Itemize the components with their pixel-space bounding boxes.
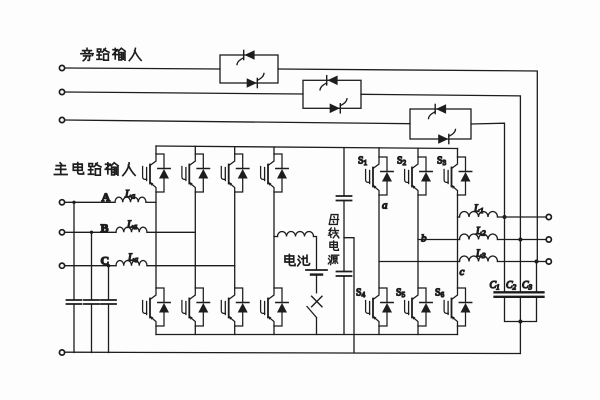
battery cell — [306, 270, 327, 293]
wire bypass line 2 right, drop to output line 2 — [361, 94, 520, 239]
battery disconnect switch — [307, 296, 322, 334]
label 旁路输入 (bypass input) — [81, 48, 141, 60]
label 母线电源 (DC bus supply), vertical — [328, 215, 339, 265]
svg-text:S3: S3 — [437, 156, 447, 168]
rectifier leg 3 wires — [234, 147, 236, 335]
terminal output 3 — [546, 259, 551, 264]
IGBT rectifier top leg 3 — [221, 154, 249, 192]
svg-text:S1: S1 — [358, 156, 368, 168]
svg-text:L2: L2 — [475, 226, 486, 238]
IGBT inverter S1 — [366, 157, 394, 195]
input filter capacitor phase B — [84, 232, 99, 352]
input filter capacitor phase C — [101, 266, 116, 353]
output capacitor leads — [505, 217, 537, 292]
inverter leg c wires — [457, 149, 459, 335]
terminal output 2 — [546, 237, 551, 242]
battery branch inductor wire from leg 4 — [274, 236, 278, 238]
output capacitor bottom bus — [505, 297, 537, 354]
svg-text:C2: C2 — [506, 280, 517, 292]
label 主电路输入 (main circuit input) — [54, 163, 135, 176]
IGBT inverter S4 — [366, 288, 394, 326]
terminal phase A — [59, 200, 64, 205]
inverter leg a wires — [378, 148, 380, 335]
wire phase C with inductor — [65, 265, 116, 267]
inductor La phase A — [115, 197, 146, 202]
terminal phase B — [59, 230, 64, 235]
static switch box 1 (anti-parallel thyristor pair) — [220, 50, 278, 88]
wire bypass line 1 left — [65, 68, 220, 69]
junction dot output 1 / bypass drop — [503, 215, 507, 219]
wire bypass line 3 right, drop to output line 1 — [471, 123, 505, 217]
DC bus capacitor upper — [337, 148, 352, 201]
svg-text:S5: S5 — [396, 288, 406, 300]
terminal output 1 — [546, 214, 551, 219]
inductor La phase B — [116, 227, 147, 232]
wire neutral bottom — [65, 352, 521, 353]
wire bypass line 1 right, drop to output line 3 — [278, 69, 537, 262]
wire phase A with inductor — [65, 201, 115, 203]
input filter capacitor phase A — [67, 202, 82, 352]
wire output phase a to L3 — [379, 261, 460, 263]
terminal bypass phase 2 — [59, 89, 64, 94]
rectifier leg 4 wires — [273, 147, 275, 335]
junction dot A filter tap — [72, 201, 75, 204]
rectifier leg 2 wires — [194, 146, 196, 334]
IGBT inverter S3 — [444, 157, 472, 195]
IGBT rectifier top leg 4 — [261, 154, 289, 192]
svg-text:S4: S4 — [356, 288, 366, 300]
static switch box 2 (anti-parallel thyristor pair) — [303, 76, 361, 114]
IGBT inverter S6 — [444, 288, 472, 326]
IGBT rectifier bottom leg 1 — [143, 288, 171, 326]
IGBT inverter S2 — [405, 157, 433, 195]
svg-text:S2: S2 — [397, 156, 407, 168]
battery inductor — [278, 232, 314, 237]
terminal phase C — [59, 263, 64, 268]
wire bypass line 2 left — [65, 92, 303, 94]
IGBT rectifier top leg 2 — [182, 154, 210, 192]
svg-text:S6: S6 — [435, 288, 445, 300]
IGBT rectifier bottom leg 2 — [182, 288, 210, 326]
label 电池 (battery) — [285, 254, 310, 265]
wire phase B with inductor — [65, 231, 116, 233]
inductor La phase C — [116, 260, 147, 265]
IGBT rectifier top leg 1 — [143, 154, 171, 192]
svg-text:C1: C1 — [490, 280, 500, 292]
wire DC positive bus — [156, 146, 458, 149]
inverter leg b wires — [417, 148, 419, 334]
rectifier leg 1 wires — [155, 146, 157, 335]
terminal bypass phase 1 — [59, 65, 64, 70]
output inductor L2 — [460, 234, 498, 240]
svg-text:L3: L3 — [475, 249, 486, 261]
terminal neutral — [59, 350, 64, 355]
svg-text:b: b — [421, 233, 427, 245]
IGBT rectifier bottom leg 3 — [221, 288, 249, 326]
static switch box 3 (anti-parallel thyristor pair) — [410, 104, 471, 144]
IGBT rectifier bottom leg 4 — [261, 288, 289, 326]
junction dot C filter tap — [107, 264, 110, 267]
junction dot B filter tap — [90, 231, 93, 234]
wire DC midpoint to neutral — [344, 238, 354, 353]
output filter capacitors C1 C2 C3 shared plates — [495, 292, 544, 297]
wire bypass line 3 left — [65, 120, 410, 124]
svg-text:C3: C3 — [522, 280, 533, 292]
output inductor L1 — [460, 212, 498, 217]
svg-text:L1: L1 — [473, 204, 484, 216]
terminal bypass phase 3 — [59, 117, 64, 122]
wire DC negative bus — [156, 334, 458, 336]
junction dot output 2 / bypass drop — [518, 238, 522, 242]
DC bus capacitor lower — [337, 201, 352, 335]
output inductor L3 — [460, 256, 498, 262]
junction dot capacitor star point — [518, 320, 522, 324]
wire output phase b to L2 — [418, 239, 460, 241]
wire output phase c to L1 — [458, 216, 460, 218]
IGBT inverter S5 — [405, 288, 433, 326]
junction dot output 3 / bypass drop — [535, 260, 539, 264]
svg-text:c: c — [460, 266, 465, 278]
svg-text:a: a — [382, 200, 388, 212]
